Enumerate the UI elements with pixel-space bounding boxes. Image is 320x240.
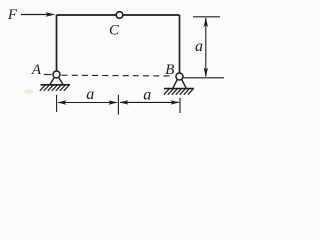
svg-text:B: B [165,62,174,78]
svg-text:a: a [143,86,151,103]
svg-text:a: a [195,38,203,55]
bottom dimension: left extension line [56,95,58,112]
ground hatching A [40,85,69,91]
support B (pin support) [164,80,194,89]
svg-text:C: C [109,23,120,39]
force arrow F [21,12,56,17]
svg-text:A: A [31,62,42,78]
faint scan speck [25,89,34,94]
ground hatching B [164,89,193,95]
dimension a (right vertical): bottom extension line [184,77,225,79]
wire: top beam [57,14,180,16]
svg-text:F: F [7,7,18,23]
dimension a (bottom left segment) [57,100,117,104]
bottom dimension: middle extension line [117,95,119,115]
bottom dimension: right extension line [179,98,181,113]
svg-text:a: a [86,86,94,103]
pin circle A [53,71,60,78]
dimension a (bottom right segment) [119,100,179,104]
leader line A [44,74,52,76]
dimension a (right vertical): dimension line with arrows [204,17,208,77]
dimension a (right vertical): top extension line [193,16,220,18]
dashed line A-B [62,74,173,77]
support A (pin support) [41,78,71,85]
wire: left column [56,15,58,71]
wire: right column [179,15,181,73]
hinge C (pin circle) [116,12,123,19]
pin circle B [176,73,183,80]
